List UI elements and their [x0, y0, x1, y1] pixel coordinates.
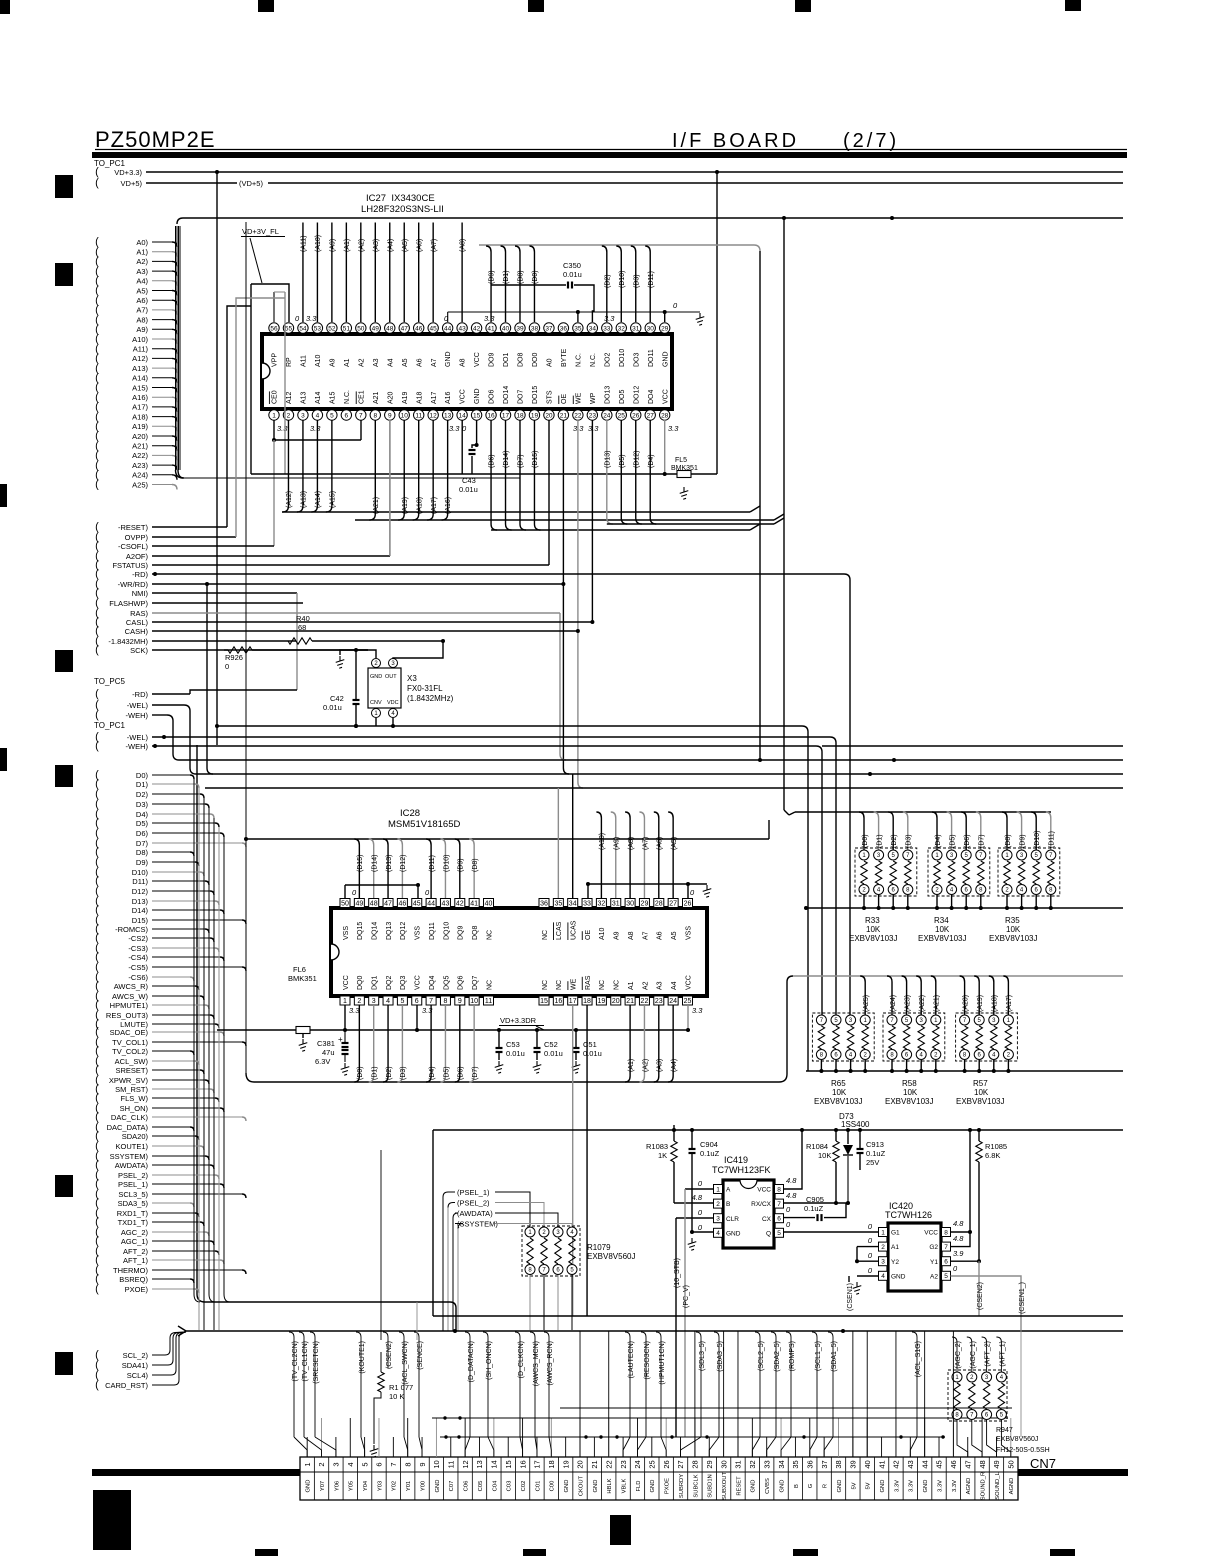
capacitor C381 47u 6.3V electrolytic	[315, 1030, 349, 1075]
svg-text:10: 10	[432, 1460, 441, 1468]
svg-text:R1083: R1083	[646, 1142, 668, 1151]
svg-text:(ACL_SWCN): (ACL_SWCN)	[402, 1341, 409, 1385]
svg-text:R33: R33	[865, 916, 880, 925]
svg-text:D1): D1)	[136, 780, 149, 789]
svg-text:(A17): (A17)	[1006, 995, 1013, 1012]
svg-text:6: 6	[415, 998, 419, 1005]
svg-text:(D1): (D1)	[503, 270, 510, 284]
svg-text:13: 13	[444, 412, 452, 419]
svg-text:AGC_1): AGC_1)	[121, 1237, 149, 1246]
svg-text:3.3: 3.3	[484, 314, 495, 323]
node control signals -RESET..SCK	[95, 521, 148, 656]
svg-text:LH28F320S3NS-LII: LH28F320S3NS-LII	[361, 204, 444, 215]
svg-text:EXBV8V103J: EXBV8V103J	[918, 934, 966, 943]
svg-text:29: 29	[641, 901, 649, 908]
IC27 voltage annotations	[277, 314, 679, 433]
svg-text:(A5): (A5)	[402, 239, 409, 252]
svg-text:TO_PC5: TO_PC5	[94, 677, 126, 686]
svg-text:DO1: DO1	[503, 353, 510, 368]
svg-text:23: 23	[655, 998, 663, 1005]
svg-text:-WEL): -WEL)	[127, 701, 149, 710]
svg-text:SUBRDY: SUBRDY	[679, 1474, 685, 1498]
node PSEL/AWDATA/SSYSTEM labels	[443, 1188, 572, 1331]
svg-text:A2): A2)	[136, 257, 148, 266]
svg-text:DQ1: DQ1	[372, 976, 379, 991]
svg-text:AWDATA): AWDATA)	[115, 1161, 149, 1170]
svg-text:68: 68	[298, 623, 306, 632]
svg-text:DO8: DO8	[518, 353, 525, 368]
svg-text:32: 32	[748, 1460, 757, 1468]
resistor R1083 1K	[646, 1125, 677, 1203]
svg-text:(A4): (A4)	[671, 1059, 678, 1072]
svg-text:(D12): (D12)	[633, 450, 640, 468]
svg-text:7: 7	[389, 1462, 398, 1466]
svg-text:DQ12: DQ12	[400, 922, 407, 940]
svg-text:(D3): (D3)	[906, 834, 913, 848]
svg-text:D3): D3)	[136, 800, 149, 809]
svg-text:(D14): (D14)	[503, 450, 510, 468]
svg-text:Y06: Y06	[334, 1481, 340, 1491]
svg-text:SH_ON): SH_ON)	[120, 1104, 149, 1113]
svg-text:A14: A14	[315, 391, 322, 404]
op-amp IC420 TC7WH126	[885, 1201, 941, 1291]
svg-text:35: 35	[791, 1460, 800, 1468]
svg-text:(D_CLKCN): (D_CLKCN)	[518, 1341, 525, 1378]
svg-text:TC7WH123FK: TC7WH123FK	[712, 1165, 771, 1175]
svg-text:18: 18	[516, 412, 524, 419]
svg-text:BYTE: BYTE	[561, 348, 568, 367]
svg-text:AFT_1): AFT_1)	[123, 1256, 149, 1265]
wire VCC rail y1030 with FL6	[217, 1005, 690, 1032]
svg-text:R34: R34	[934, 916, 949, 925]
svg-text:3.3V: 3.3V	[894, 1480, 900, 1492]
svg-text:A16): A16)	[132, 393, 148, 402]
svg-text:3.3: 3.3	[310, 424, 321, 433]
capacitor C350 0.01u	[491, 261, 594, 322]
svg-text:BSREQ): BSREQ)	[119, 1275, 148, 1284]
svg-text:DO13: DO13	[604, 386, 611, 404]
svg-text:D2): D2)	[136, 790, 149, 799]
svg-text:14: 14	[458, 412, 466, 419]
svg-text:R: R	[823, 1484, 829, 1488]
svg-text:A9: A9	[329, 358, 336, 367]
svg-text:A0: A0	[547, 358, 554, 367]
svg-text:NC: NC	[542, 980, 549, 990]
svg-text:(KOUTE1): (KOUTE1)	[359, 1341, 366, 1374]
svg-text:OVPP): OVPP)	[125, 533, 149, 542]
svg-text:C01: C01	[535, 1481, 541, 1492]
svg-text:GND: GND	[923, 1480, 929, 1493]
svg-text:23: 23	[619, 1460, 628, 1468]
svg-text:NC: NC	[556, 980, 563, 990]
svg-text:4.8: 4.8	[786, 1176, 797, 1185]
svg-text:R947: R947	[996, 1427, 1013, 1434]
wire bus y976	[793, 975, 1123, 977]
svg-text:SDA41): SDA41)	[122, 1361, 149, 1370]
svg-text:3: 3	[372, 998, 376, 1005]
svg-text:(CSEN2): (CSEN2)	[977, 1282, 984, 1310]
svg-text:(D0): (D0)	[862, 834, 869, 848]
svg-text:A8: A8	[460, 358, 467, 367]
svg-text:RES_OUT3): RES_OUT3)	[106, 1011, 149, 1020]
svg-text:DO9: DO9	[489, 353, 496, 368]
svg-text:(D10): (D10)	[1034, 830, 1041, 848]
svg-text:(D4): (D4)	[429, 1066, 436, 1080]
svg-text:FH12-50S-0.5SH: FH12-50S-0.5SH	[996, 1447, 1050, 1454]
svg-text:(A15): (A15)	[329, 491, 336, 508]
svg-text:18: 18	[583, 998, 591, 1005]
title PZ50MP2E	[95, 127, 216, 152]
svg-text:GND: GND	[837, 1480, 843, 1493]
svg-text:A2: A2	[642, 981, 649, 990]
svg-text:47: 47	[384, 901, 392, 908]
svg-text:(D3): (D3)	[400, 1066, 407, 1080]
svg-text:DO3: DO3	[633, 353, 640, 368]
svg-text:33: 33	[583, 901, 591, 908]
svg-text:29: 29	[661, 325, 669, 332]
svg-text:51: 51	[343, 325, 351, 332]
svg-text:C07: C07	[449, 1481, 455, 1492]
svg-text:24: 24	[603, 412, 611, 419]
svg-text:VD+3.3DR: VD+3.3DR	[500, 1016, 537, 1025]
svg-text:EXBV8V103J: EXBV8V103J	[814, 1097, 862, 1106]
svg-text:A13: A13	[301, 391, 308, 404]
svg-text:Y02: Y02	[392, 1481, 398, 1491]
svg-text:11: 11	[415, 412, 422, 419]
wire IC28 (D15)-(D8) stubs	[354, 839, 479, 898]
svg-text:(: (	[95, 740, 99, 752]
svg-text:48: 48	[978, 1460, 987, 1468]
svg-text:A6): A6)	[136, 296, 148, 305]
svg-text:(: (	[95, 1379, 99, 1391]
svg-text:(D2): (D2)	[891, 834, 898, 848]
svg-text:16: 16	[554, 998, 562, 1005]
svg-text:A1: A1	[628, 981, 635, 990]
svg-text:MSM51V18165D: MSM51V18165D	[388, 819, 460, 830]
svg-text:A3): A3)	[136, 267, 148, 276]
svg-text:DQ11: DQ11	[429, 922, 436, 940]
svg-text:6: 6	[944, 1259, 948, 1266]
svg-text:A6: A6	[657, 931, 664, 940]
wire VD+3.3 vertical x717 to FL5	[716, 172, 718, 474]
svg-text:16: 16	[487, 412, 495, 419]
svg-text:27: 27	[669, 901, 677, 908]
svg-text:A3: A3	[657, 981, 664, 990]
svg-text:A12: A12	[286, 391, 293, 404]
svg-text:SCK): SCK)	[130, 646, 148, 655]
svg-text:(D13): (D13)	[386, 854, 393, 872]
svg-text:CX: CX	[762, 1216, 772, 1223]
wire VD+5 rail	[146, 179, 1123, 188]
svg-text:THERMO): THERMO)	[113, 1266, 148, 1275]
svg-text:25: 25	[618, 412, 626, 419]
svg-text:12: 12	[430, 412, 438, 419]
svg-text:3.3: 3.3	[668, 424, 679, 433]
svg-text:A25): A25)	[132, 480, 148, 489]
svg-text:CE1: CE1	[358, 390, 365, 404]
svg-text:DQ7: DQ7	[472, 976, 479, 991]
svg-text:10K: 10K	[832, 1088, 847, 1097]
svg-text:3.3: 3.3	[604, 314, 615, 323]
svg-text:(: (	[95, 177, 99, 189]
svg-text:TO_PC1: TO_PC1	[94, 721, 126, 730]
svg-text:AGND: AGND	[1009, 1478, 1015, 1495]
diode D73 1SS400	[839, 1112, 870, 1129]
svg-text:SUBD1N: SUBD1N	[708, 1474, 714, 1498]
svg-text:DQ6: DQ6	[458, 976, 465, 991]
svg-text:Y00: Y00	[420, 1481, 426, 1491]
wire address bus rail y218	[177, 216, 1123, 224]
svg-text:Y01: Y01	[406, 1481, 412, 1491]
svg-text:-WEL): -WEL)	[127, 733, 149, 742]
svg-text:-RD): -RD)	[132, 570, 148, 579]
svg-text:C05: C05	[478, 1481, 484, 1492]
svg-text:-RD): -RD)	[132, 690, 148, 699]
svg-text:SOUND_R: SOUND_R	[981, 1472, 987, 1500]
svg-text:44: 44	[920, 1460, 929, 1468]
svg-text:43: 43	[906, 1460, 915, 1468]
svg-text:A5: A5	[671, 931, 678, 940]
svg-text:10K: 10K	[818, 1151, 831, 1160]
svg-text:42: 42	[473, 325, 481, 332]
svg-text:-CS6): -CS6)	[128, 973, 148, 982]
svg-text:(A3): (A3)	[373, 239, 380, 252]
svg-text:CNV: CNV	[370, 700, 382, 706]
svg-text:42: 42	[892, 1460, 901, 1468]
svg-text:34: 34	[589, 325, 597, 332]
svg-text:A2OF): A2OF)	[126, 552, 149, 561]
svg-text:3.3: 3.3	[277, 424, 288, 433]
svg-text:28: 28	[661, 412, 669, 419]
capacitor C904 0.1uZ	[689, 1130, 720, 1232]
svg-text:53: 53	[314, 325, 322, 332]
svg-text:(D4): (D4)	[648, 454, 655, 468]
svg-text:DO11: DO11	[648, 349, 655, 367]
svg-text:1: 1	[716, 1186, 720, 1193]
svg-text:CE0: CE0	[272, 390, 279, 404]
svg-text:VCC: VCC	[474, 352, 481, 367]
svg-text:11: 11	[485, 998, 492, 1005]
svg-text:17: 17	[569, 998, 577, 1005]
svg-text:5V: 5V	[866, 1482, 872, 1489]
capacitor C905 0.1uZ	[784, 1195, 847, 1221]
svg-text:DQ8: DQ8	[472, 926, 479, 941]
svg-text:(SCL1_5): (SCL1_5)	[815, 1341, 822, 1371]
svg-text:9: 9	[418, 1462, 427, 1466]
svg-text:A11: A11	[301, 355, 308, 367]
wire IC28 WE/RAS pins down	[573, 1005, 587, 1316]
svg-text:(AWDATA): (AWDATA)	[457, 1209, 493, 1218]
svg-text:VD+3V_FL: VD+3V_FL	[242, 227, 279, 236]
svg-text:HPMUTE1): HPMUTE1)	[110, 1001, 149, 1010]
wire VD+3.3 vertical x217	[216, 172, 218, 745]
svg-text:A1: A1	[344, 358, 351, 367]
svg-text:G1: G1	[891, 1230, 900, 1237]
svg-text:50: 50	[357, 325, 365, 332]
svg-text:DAC_DATA): DAC_DATA)	[107, 1123, 149, 1132]
node VD+3.3DR	[499, 1016, 544, 1030]
svg-text:D13): D13)	[132, 897, 149, 906]
svg-text:RESET: RESET	[736, 1476, 742, 1496]
IC419 pins	[714, 1185, 784, 1238]
svg-text:(RESO3CN): (RESO3CN)	[644, 1341, 651, 1380]
svg-text:OE: OE	[561, 394, 568, 404]
svg-text:R35: R35	[1005, 916, 1020, 925]
svg-text:36: 36	[540, 901, 548, 908]
svg-text:(A10): (A10)	[599, 833, 606, 850]
svg-text:FL6: FL6	[293, 965, 306, 974]
svg-text:48: 48	[386, 325, 394, 332]
svg-text:A1): A1)	[136, 248, 148, 257]
svg-text:17: 17	[502, 412, 510, 419]
svg-text:C42: C42	[330, 694, 344, 703]
svg-text:28: 28	[655, 901, 663, 908]
svg-text:(D15): (D15)	[532, 450, 539, 468]
svg-text:(D11): (D11)	[1049, 831, 1056, 848]
svg-text:DQ2: DQ2	[386, 976, 393, 991]
svg-text:52: 52	[328, 325, 336, 332]
svg-text:4.8: 4.8	[786, 1191, 797, 1200]
svg-text:(A17): (A17)	[431, 497, 438, 514]
svg-text:R40: R40	[296, 614, 310, 623]
svg-text:(ROMPS): (ROMPS)	[789, 1341, 796, 1371]
svg-text:(D9): (D9)	[489, 270, 496, 284]
svg-text:C913: C913	[866, 1140, 884, 1149]
svg-text:DO12: DO12	[633, 386, 640, 404]
svg-text:GND: GND	[880, 1480, 886, 1493]
svg-text:10K: 10K	[866, 925, 881, 934]
IC27 top pin row (pins 56-29)	[269, 323, 670, 367]
svg-text:SUBCLK: SUBCLK	[693, 1474, 699, 1497]
svg-text:1: 1	[881, 1229, 885, 1236]
svg-text:(CSEN1_): (CSEN1_)	[1019, 1282, 1026, 1314]
svg-text:36: 36	[805, 1460, 814, 1468]
resistor network R34 10K EXBV8V103J	[918, 812, 990, 943]
svg-text:A13): A13)	[132, 364, 148, 373]
svg-text:41: 41	[487, 325, 495, 332]
svg-text:1K: 1K	[658, 1151, 667, 1160]
wire D-label stubs pins 41-38	[486, 246, 539, 322]
svg-text:10K: 10K	[935, 925, 950, 934]
wire bus y1071	[806, 1070, 1123, 1072]
svg-text:A18): A18)	[132, 412, 148, 421]
svg-text:5: 5	[330, 412, 334, 419]
svg-text:SSYSTEM): SSYSTEM)	[110, 1152, 149, 1161]
svg-text:DO4: DO4	[648, 390, 655, 405]
wire A12-A16 stubs under IC27	[282, 420, 784, 556]
node control labels -ROMCS..PXOE	[95, 923, 246, 1295]
svg-text:A9): A9)	[136, 325, 148, 334]
svg-text:IC419: IC419	[724, 1155, 748, 1165]
svg-text:33: 33	[762, 1460, 771, 1468]
svg-text:VSS: VSS	[685, 926, 692, 940]
svg-text:3.3V: 3.3V	[952, 1480, 958, 1492]
svg-text:6: 6	[375, 1462, 384, 1466]
svg-text:C904: C904	[700, 1140, 718, 1149]
svg-text:VD+3.3): VD+3.3)	[114, 168, 142, 177]
svg-text:(A23): (A23)	[904, 995, 911, 1012]
svg-text:(A2): (A2)	[358, 239, 365, 252]
svg-text:TC7WH126: TC7WH126	[885, 1210, 932, 1220]
wire CE0/CE1 tie y440	[272, 420, 361, 546]
capacitor C52 0.01u	[533, 1028, 563, 1073]
svg-text:Y2: Y2	[891, 1259, 899, 1266]
filter FL5 BMK351	[671, 457, 698, 499]
svg-text:C06: C06	[464, 1481, 470, 1492]
svg-text:3.3V: 3.3V	[909, 1480, 915, 1492]
svg-text:A7: A7	[642, 931, 649, 940]
svg-text:(A11): (A11)	[301, 235, 308, 252]
svg-text:34: 34	[569, 901, 577, 908]
svg-text:VCC: VCC	[343, 975, 350, 990]
svg-text:(TV_CL1CN): (TV_CL1CN)	[302, 1341, 309, 1381]
svg-text:D12): D12)	[132, 887, 149, 896]
svg-text:A0): A0)	[136, 238, 148, 247]
diode D73 symbol	[843, 1130, 853, 1205]
svg-text:29: 29	[705, 1460, 714, 1468]
svg-text:DO6: DO6	[489, 390, 496, 405]
svg-text:A6: A6	[416, 358, 423, 367]
svg-text:34: 34	[777, 1460, 786, 1468]
svg-text:(D6): (D6)	[458, 1066, 465, 1080]
svg-text:D0): D0)	[136, 771, 149, 780]
svg-text:-ROMCS): -ROMCS)	[115, 925, 148, 934]
svg-text:9: 9	[388, 412, 392, 419]
resistor network R65 10K EXBV8V103J	[812, 976, 874, 1106]
svg-text:VCC: VCC	[460, 389, 467, 404]
resistor R926 0	[224, 647, 368, 671]
svg-text:20: 20	[612, 998, 620, 1005]
svg-text:27: 27	[647, 412, 655, 419]
svg-text:D6): D6)	[136, 829, 149, 838]
svg-text:DO15: DO15	[532, 386, 539, 404]
svg-text:35: 35	[574, 325, 582, 332]
svg-text:(A7): (A7)	[431, 239, 438, 252]
svg-text:VBLK: VBLK	[622, 1478, 628, 1493]
wire rail y737 from TO_PC1 -WEL	[152, 735, 836, 1014]
svg-text:9: 9	[458, 998, 462, 1005]
svg-text:(: (	[95, 644, 99, 656]
wire rail y788	[205, 787, 1123, 789]
svg-text:3.3: 3.3	[692, 1006, 703, 1015]
svg-text:A10: A10	[315, 354, 322, 367]
svg-text:OE: OE	[585, 930, 592, 940]
svg-text:-1.8432MH): -1.8432MH)	[108, 637, 148, 646]
IC28 bottom pin row	[340, 975, 693, 1005]
svg-text:39: 39	[849, 1460, 858, 1468]
svg-text:(A6): (A6)	[416, 239, 423, 252]
svg-text:10 K: 10 K	[389, 1392, 404, 1401]
svg-text:43: 43	[442, 901, 450, 908]
svg-text:R926: R926	[225, 653, 243, 662]
svg-text:RX/CX: RX/CX	[751, 1201, 772, 1208]
svg-text:4: 4	[316, 412, 320, 419]
svg-text:2: 2	[881, 1244, 885, 1251]
svg-text:D8): D8)	[136, 848, 149, 857]
svg-text:CLR: CLR	[726, 1216, 739, 1223]
svg-text:C52: C52	[544, 1040, 558, 1049]
svg-text:A8: A8	[628, 931, 635, 940]
svg-text:22: 22	[604, 1460, 613, 1468]
svg-text:47u: 47u	[322, 1048, 335, 1057]
svg-text:C04: C04	[492, 1480, 498, 1491]
svg-text:Y07: Y07	[320, 1481, 326, 1491]
svg-text:5: 5	[360, 1462, 369, 1466]
svg-text:GND: GND	[662, 351, 669, 367]
svg-text:20: 20	[576, 1460, 585, 1468]
svg-text:(D13): (D13)	[604, 450, 611, 468]
svg-text:24: 24	[669, 998, 677, 1005]
